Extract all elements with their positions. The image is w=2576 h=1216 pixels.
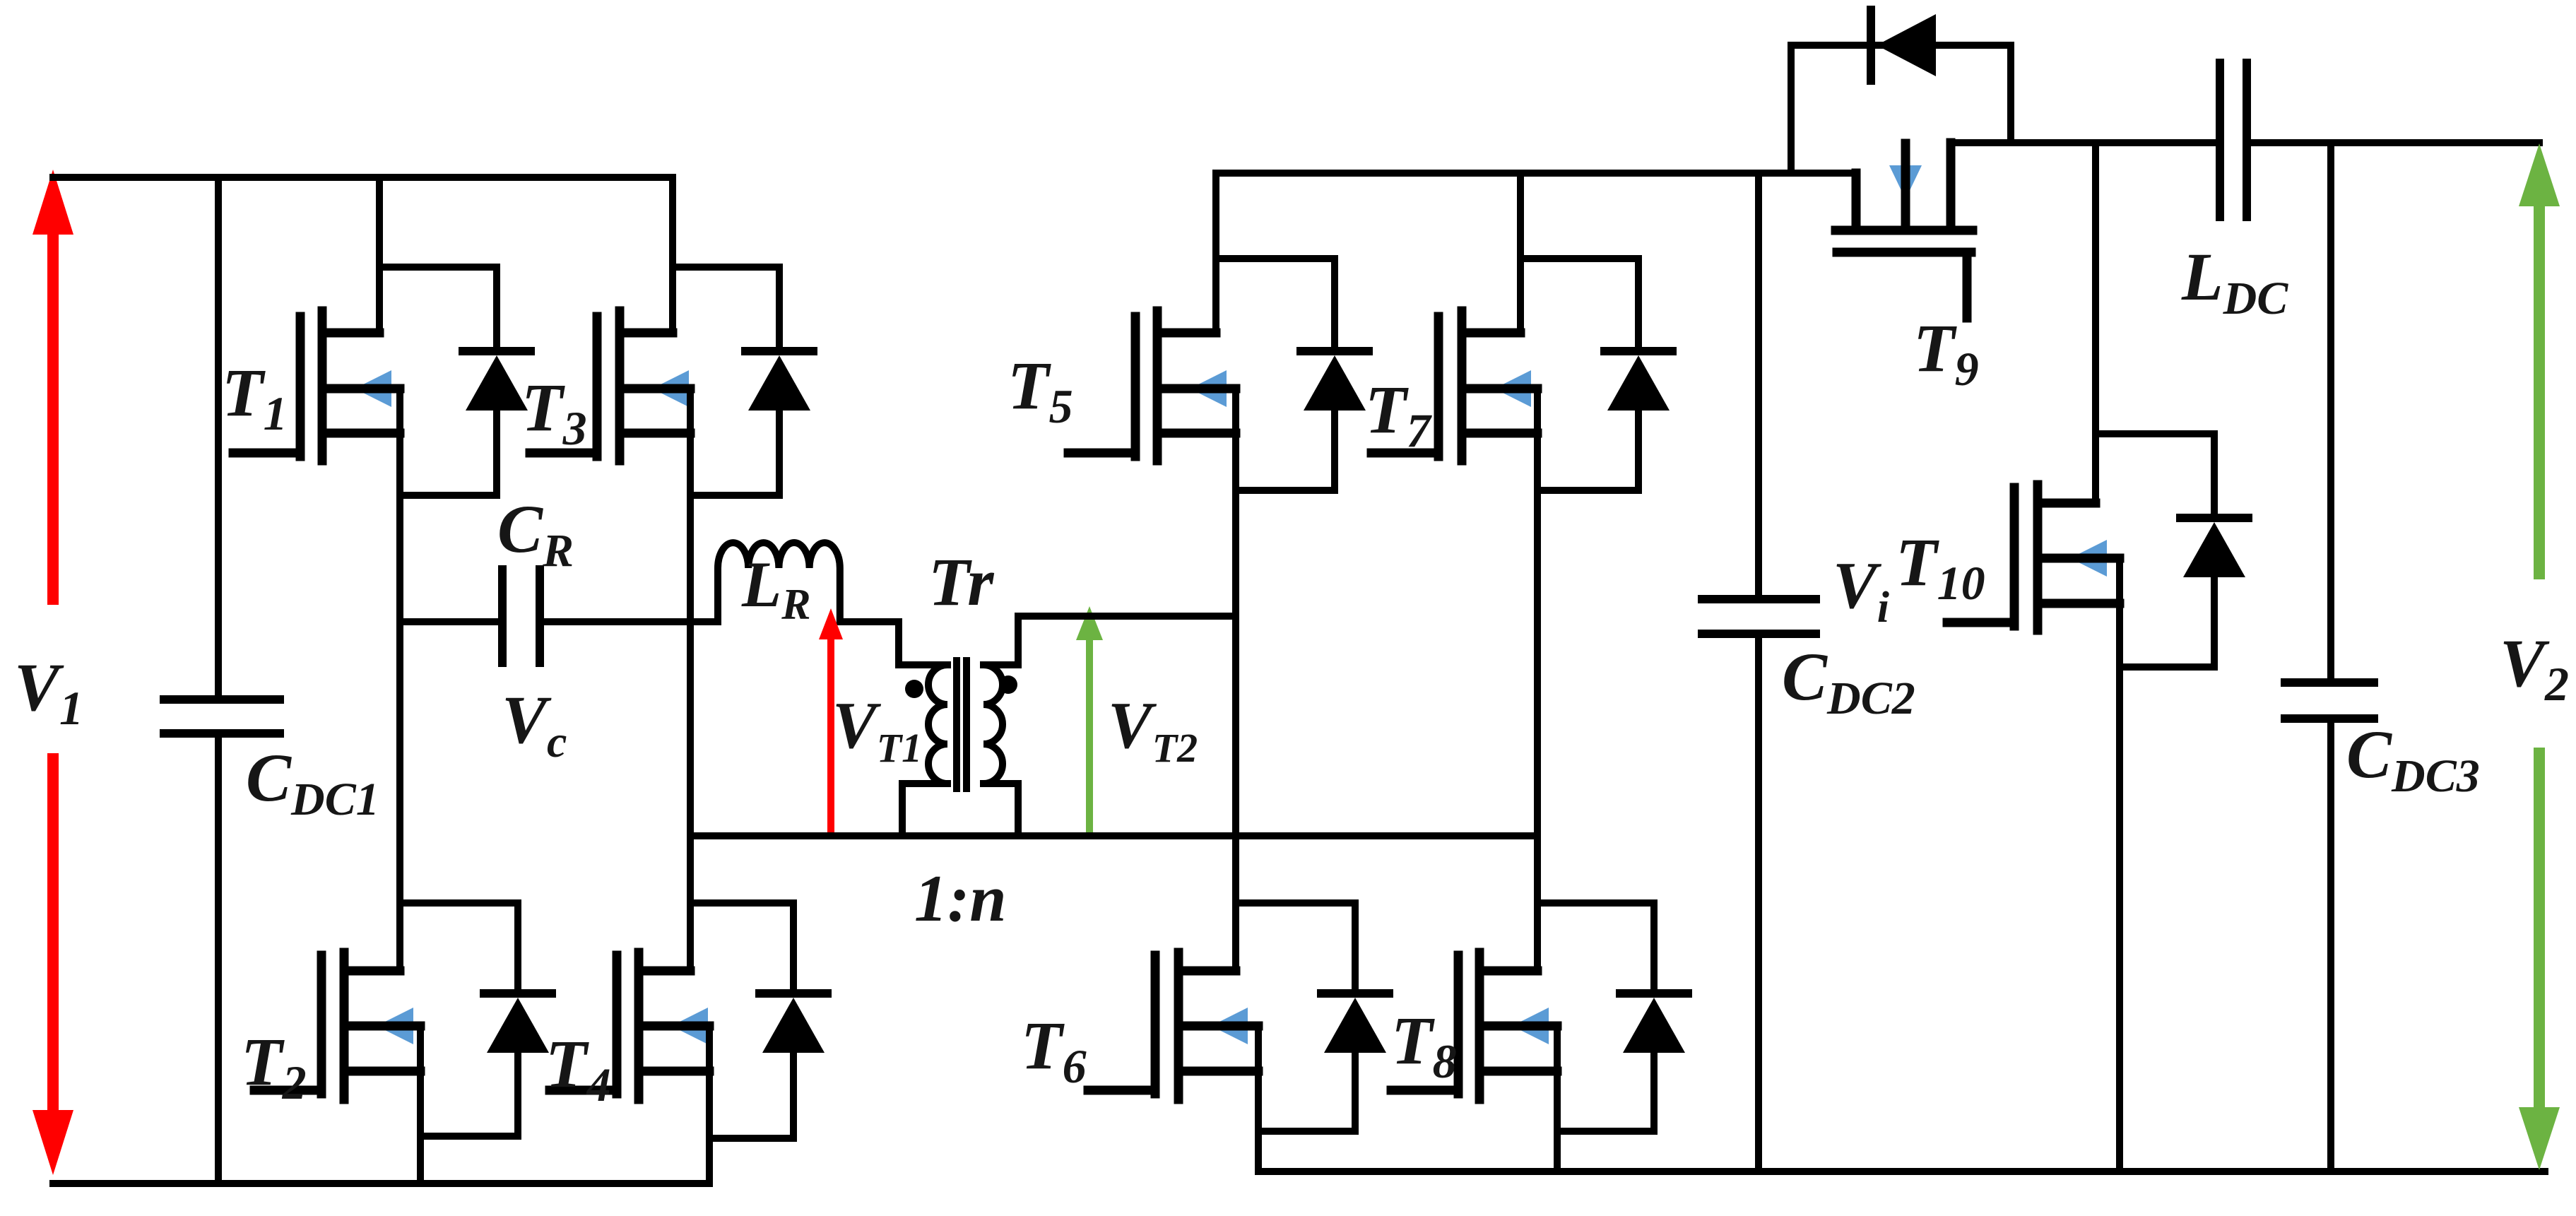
inductor L_DC (drawn as series plates) xyxy=(2220,63,2247,217)
wire: T4 diode bottom link xyxy=(709,1135,793,1142)
transistor T3 (MOSFET) xyxy=(530,311,690,461)
T10 source arrow xyxy=(2070,540,2107,577)
wire: T4 diode top branch xyxy=(690,899,793,907)
wire: transformer secondary top lead xyxy=(983,616,1236,665)
wire: T10 drain branch vertical xyxy=(2092,143,2099,503)
wire: T7 diode top branch xyxy=(1520,255,1638,262)
wire: secondary bottom rail xyxy=(1258,1168,2545,1175)
wire: transformer bottom bus xyxy=(690,832,1537,839)
wire: T3 drain vertical xyxy=(669,177,676,333)
transistor T6 (MOSFET) xyxy=(1088,952,1258,1099)
wire: leg1 midpoint vertical (T1 source to T2 drain) xyxy=(396,389,403,971)
wire: T8 diode top branch xyxy=(1537,899,1654,907)
wire: C_R to L_R xyxy=(540,618,718,625)
diode D7 (T7 body diode) xyxy=(1605,259,1672,490)
wire: T9 clamp diode right vertical xyxy=(2007,45,2014,143)
transistor T9 (MOSFET, horizontal) xyxy=(1836,143,1973,318)
transistor T1 (MOSFET) xyxy=(233,311,400,461)
wire: T7 drain vertical xyxy=(1517,173,1524,333)
wire: C_DC1 branch lower xyxy=(215,733,222,1183)
wire: T1 drain vertical xyxy=(376,177,383,333)
wire: T3 diode bottom link xyxy=(690,492,779,499)
transformer Tr core xyxy=(957,661,967,789)
capacitor C_R xyxy=(502,569,540,663)
wire: T8 diode bottom link xyxy=(1557,1128,1654,1135)
diode D8 (T8 body diode) xyxy=(1620,903,1688,1131)
wire: output top rail (T9 drain to L_DC) xyxy=(1951,139,2220,146)
wire: T6 diode bottom link xyxy=(1258,1128,1355,1135)
wire: T3 diode top branch xyxy=(673,264,779,271)
wire: T7 diode bottom link xyxy=(1537,487,1638,494)
wire: T10 diode top branch xyxy=(2096,430,2214,437)
wire: T5 drain vertical xyxy=(1212,173,1219,333)
transistor T7 (MOSFET) xyxy=(1371,311,1537,461)
wire: T10 source vertical xyxy=(2116,558,2123,1171)
wire: T6 source vertical xyxy=(1255,1026,1262,1171)
diode D6 (T6 body diode) xyxy=(1321,903,1389,1131)
transformer Tr primary winding xyxy=(928,665,947,784)
transformer primary polarity dot xyxy=(905,680,923,698)
diode D5 (T5 body diode) xyxy=(1301,259,1369,490)
wire: T2 source vertical xyxy=(417,1026,424,1183)
T3 source arrow xyxy=(652,370,689,407)
transistor T8 (MOSFET) xyxy=(1391,952,1557,1099)
wire: T4 source vertical xyxy=(706,1026,713,1183)
wire: leg4 midpoint vertical (T7 source to T8 drain) xyxy=(1534,389,1541,971)
T4 source arrow xyxy=(671,1008,708,1044)
wire: primary bottom rail xyxy=(53,1180,709,1187)
capacitor C_DC2 xyxy=(1702,599,1816,634)
wire: leg3 midpoint vertical (T5 source to T6 drain) xyxy=(1232,389,1239,971)
diode D2 (T2 body diode) xyxy=(484,903,552,1136)
wire: T8 source vertical xyxy=(1554,1026,1561,1171)
wire: C_DC2 branch lower xyxy=(1755,634,1762,1171)
wire: transformer primary bottom lead xyxy=(902,784,947,836)
transistor T2 (MOSFET) xyxy=(254,952,420,1099)
wire: T5 diode bottom link xyxy=(1236,487,1335,494)
wire: output top rail (L_DC to V2) xyxy=(2247,139,2539,146)
wire: C_DC2 branch upper xyxy=(1755,173,1762,599)
wire: T5 diode top branch xyxy=(1216,255,1335,262)
wire: C_DC3 branch upper xyxy=(2327,143,2334,683)
wire: T6 diode top branch xyxy=(1236,899,1355,907)
diode D9 (T9 antiparallel diode, pointing left) xyxy=(1871,10,1936,81)
inductor L_R xyxy=(718,543,840,620)
V_T1 arrow (red) xyxy=(819,608,843,836)
capacitor C_DC3 xyxy=(2285,683,2374,719)
T1 source arrow xyxy=(355,370,391,407)
diode D3 (T3 body diode) xyxy=(745,267,813,495)
wire: T10 diode bottom link xyxy=(2120,663,2214,671)
svg-text:Tr: Tr xyxy=(928,544,995,620)
V2 output arrow (green, double-headed) xyxy=(2519,143,2560,1170)
diode D1 (T1 body diode) xyxy=(463,267,531,495)
wire: primary top rail xyxy=(53,174,673,181)
transistor T10 (MOSFET) xyxy=(1947,485,2120,630)
T2 source arrow xyxy=(377,1008,413,1044)
T9 source arrow (pointing down) xyxy=(1889,165,1922,199)
diode D10 (T10 body diode) xyxy=(2180,434,2248,667)
capacitor C_DC1 xyxy=(164,700,280,733)
wire: C_DC1 branch upper xyxy=(215,177,222,700)
T8 source arrow xyxy=(1512,1008,1549,1044)
T5 source arrow xyxy=(1190,370,1227,407)
transistor T5 (MOSFET) xyxy=(1068,311,1236,461)
wire: leg1 midpoint to C_R xyxy=(400,618,502,625)
wire: leg2 midpoint vertical (T3 source to T4 drain) xyxy=(687,389,694,971)
wire: transformer secondary bottom lead xyxy=(983,784,1018,836)
wire: T9 clamp diode left vertical xyxy=(1788,45,1795,173)
svg-text:1:n: 1:n xyxy=(914,862,1007,935)
wire: T2 diode top branch xyxy=(400,899,518,907)
V1 source arrow (red, double-headed) xyxy=(33,170,73,1175)
T7 source arrow xyxy=(1494,370,1531,407)
wire: L_R to transformer primary top xyxy=(840,622,947,665)
transformer Tr secondary winding xyxy=(983,665,1003,784)
T6 source arrow xyxy=(1211,1008,1248,1044)
wire: C_DC3 branch lower xyxy=(2327,719,2334,1171)
transistor T4 (MOSFET) xyxy=(550,952,709,1099)
diode D4 (T4 body diode) xyxy=(760,903,827,1138)
wire: T1 diode bottom link xyxy=(400,492,497,499)
transformer secondary polarity dot xyxy=(999,675,1017,694)
wire: T9 clamp diode horizontal xyxy=(1791,42,2011,49)
V_T2 arrow (green) xyxy=(1076,606,1103,836)
wire: T1 diode top branch xyxy=(379,264,497,271)
wire: secondary top rail xyxy=(1216,170,1856,177)
wire: T2 diode bottom link xyxy=(420,1133,518,1140)
